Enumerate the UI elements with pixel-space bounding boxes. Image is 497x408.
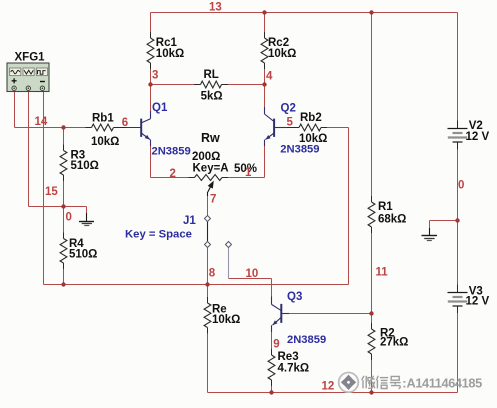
svg-text:Re3: Re3 bbox=[278, 351, 299, 363]
svg-text:12 V: 12 V bbox=[466, 131, 490, 143]
svg-text:Rw: Rw bbox=[201, 131, 220, 145]
svg-text:7: 7 bbox=[210, 194, 216, 206]
svg-text:15: 15 bbox=[45, 186, 58, 198]
svg-text:68kΩ: 68kΩ bbox=[378, 214, 406, 226]
svg-text:2N3859: 2N3859 bbox=[152, 146, 191, 158]
svg-text:4: 4 bbox=[266, 71, 273, 83]
svg-text:14: 14 bbox=[35, 116, 48, 128]
svg-text:Q1: Q1 bbox=[152, 102, 168, 114]
svg-text:9: 9 bbox=[273, 339, 279, 351]
svg-text:Rb2: Rb2 bbox=[300, 112, 322, 124]
svg-text:12: 12 bbox=[322, 381, 335, 393]
svg-text:510Ω: 510Ω bbox=[69, 249, 97, 261]
svg-text:8: 8 bbox=[209, 268, 216, 280]
svg-text:1: 1 bbox=[245, 167, 252, 179]
svg-text:J1: J1 bbox=[183, 215, 196, 227]
svg-text:5kΩ: 5kΩ bbox=[201, 91, 223, 103]
svg-text:4.7kΩ: 4.7kΩ bbox=[278, 363, 310, 375]
svg-text:2: 2 bbox=[170, 168, 176, 180]
svg-text:10kΩ: 10kΩ bbox=[268, 48, 296, 60]
svg-text:10kΩ: 10kΩ bbox=[91, 136, 119, 148]
svg-text:12 V: 12 V bbox=[466, 296, 490, 308]
svg-text:3: 3 bbox=[152, 70, 158, 82]
svg-text:0: 0 bbox=[66, 212, 72, 224]
svg-text:10: 10 bbox=[246, 268, 259, 280]
svg-text:Q3: Q3 bbox=[287, 291, 302, 303]
svg-text:Key=A: Key=A bbox=[193, 163, 229, 175]
svg-text:200Ω: 200Ω bbox=[192, 151, 220, 163]
svg-text:A1411464185: A1411464185 bbox=[407, 376, 483, 391]
svg-text:510Ω: 510Ω bbox=[71, 160, 99, 172]
svg-text:XFG1: XFG1 bbox=[15, 52, 46, 64]
svg-text:5: 5 bbox=[287, 117, 294, 129]
svg-text:R1: R1 bbox=[378, 201, 393, 213]
svg-text:Key = Space: Key = Space bbox=[125, 229, 192, 241]
svg-text:RL: RL bbox=[204, 69, 219, 81]
svg-text:2N3859: 2N3859 bbox=[280, 144, 319, 156]
svg-text:Rb1: Rb1 bbox=[92, 112, 114, 124]
svg-text:13: 13 bbox=[209, 2, 222, 14]
svg-text:Q2: Q2 bbox=[281, 103, 296, 115]
svg-text:27kΩ: 27kΩ bbox=[380, 337, 408, 349]
svg-text:10kΩ: 10kΩ bbox=[156, 48, 184, 60]
svg-text:6: 6 bbox=[122, 117, 128, 129]
svg-text:10kΩ: 10kΩ bbox=[212, 314, 240, 326]
svg-text:11: 11 bbox=[376, 267, 389, 279]
svg-text:0: 0 bbox=[458, 180, 464, 192]
svg-text:2N3859: 2N3859 bbox=[287, 334, 326, 346]
